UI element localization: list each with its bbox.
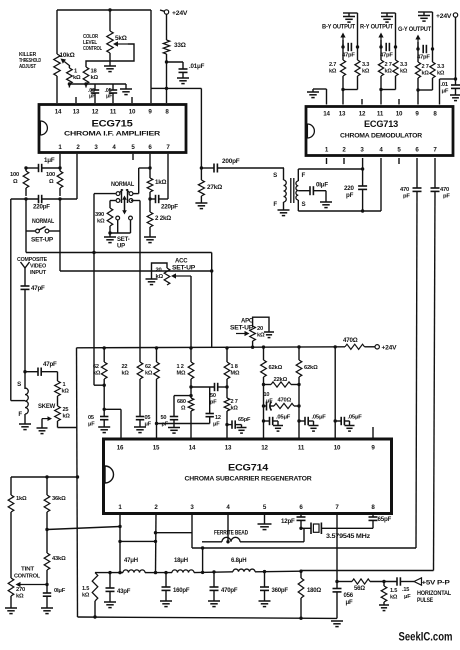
svg-text:COMPOSITE: COMPOSITE	[17, 257, 47, 263]
node pin8 rail crossing	[165, 87, 168, 90]
svg-text:10: 10	[264, 392, 270, 398]
capacitor .01uF top middle	[179, 69, 188, 72]
wire pin1 branch right	[120, 540, 156, 542]
node 211 at 271	[210, 269, 213, 272]
wire 62kC down to pin15	[156, 379, 158, 439]
resistor 180 ohm	[298, 571, 304, 618]
ground transformer cap	[320, 202, 332, 208]
node G-Y join	[416, 88, 419, 91]
inductor input coil	[25, 372, 28, 414]
svg-text:kΩ: kΩ	[231, 406, 239, 412]
resistor 62k A	[101, 348, 107, 379]
label SET-UP switch2	[117, 237, 130, 250]
wire 714 pin3 column	[191, 514, 193, 549]
resistor 62k E	[296, 347, 302, 377]
svg-text:pF: pF	[403, 194, 410, 200]
svg-text:S: S	[273, 172, 277, 179]
node 390k bottom	[108, 231, 111, 234]
label F secondary	[302, 172, 306, 179]
svg-text:HORIZONTAL: HORIZONTAL	[417, 591, 451, 597]
svg-text:B-Y OUTPUT: B-Y OUTPUT	[322, 25, 356, 31]
node 1.8M col top	[225, 346, 228, 349]
wiper arrow ACC	[171, 273, 191, 278]
resistor 1k pin6	[147, 178, 153, 192]
wire branch to .01uF	[167, 62, 184, 69]
switch normal/setup 1	[26, 227, 60, 233]
label R-Y OUTPUT	[360, 25, 394, 31]
svg-text:27kΩ: 27kΩ	[207, 184, 222, 191]
label 47pF G-Y	[417, 55, 430, 61]
wire switch2 lower left down	[110, 220, 131, 233]
resistor 3.3k R-Y	[393, 60, 398, 76]
label 65pF mid	[238, 417, 251, 423]
label HORIZONTAL PULSE	[417, 591, 451, 604]
svg-text:100: 100	[10, 172, 19, 178]
wiper arrow killer pot	[61, 59, 71, 67]
wiper arrow APC	[236, 331, 250, 336]
capacitor 470pF pin6	[413, 188, 422, 191]
svg-text:kΩ: kΩ	[16, 594, 24, 600]
svg-text:F: F	[18, 411, 22, 418]
wire main bus 348	[77, 346, 253, 349]
label 470 ohm bus	[343, 337, 358, 344]
capacitor .05uF r3	[335, 417, 349, 426]
label 47pF coupling	[43, 361, 57, 368]
wire 390k junction to ground	[109, 233, 111, 237]
svg-text:47pF: 47pF	[43, 361, 57, 368]
wire 10k pot top lead	[56, 10, 58, 54]
ground 1.5k pulse	[379, 602, 389, 611]
node bus 263	[262, 345, 265, 348]
svg-text:65pF: 65pF	[238, 417, 251, 423]
wire 680 to pin14	[190, 411, 192, 439]
op-amp IC U3 ECG714 CHROMA SUBCARRIER REGENERATOR	[104, 439, 392, 514]
node B-Y cap right	[356, 45, 359, 48]
svg-text:1 8: 1 8	[231, 364, 238, 370]
label 47uH	[124, 558, 138, 564]
svg-text:NORMAL: NORMAL	[32, 219, 54, 225]
wire 714 pin8 to 65pF	[372, 514, 374, 518]
wire 47uH to B	[145, 572, 156, 574]
svg-text:μF: μF	[346, 600, 353, 606]
label 360pF	[272, 588, 289, 594]
wire junction to 714 pin1	[47, 527, 120, 530]
svg-text:12: 12	[92, 109, 99, 116]
svg-text:43pF: 43pF	[117, 589, 131, 595]
svg-text:VIDEO: VIDEO	[30, 263, 47, 269]
svg-text:.05μF: .05μF	[312, 415, 327, 421]
wire pin6 down	[149, 154, 151, 178]
label 680	[177, 399, 186, 412]
pin stub 713-1	[326, 158, 328, 164]
tint wiper arrow	[16, 582, 47, 587]
svg-text:+24V: +24V	[172, 10, 188, 17]
svg-text:PULSE: PULSE	[417, 598, 433, 604]
node 1.5k bottom right	[382, 580, 385, 583]
node bus 299	[297, 345, 300, 348]
wire 25k bottom jog	[58, 421, 78, 428]
wire B-Y right rail top	[357, 13, 359, 60]
svg-text:CHROMA DEMODULATOR: CHROMA DEMODULATOR	[340, 133, 422, 140]
capacitor 65pF mid	[227, 420, 242, 428]
horizontal pulse input arrow	[414, 578, 422, 585]
svg-text:+24V: +24V	[382, 345, 398, 352]
wire rail 94 from switch	[93, 194, 95, 386]
node pin1 541	[118, 540, 121, 543]
svg-text:62kΩ: 62kΩ	[269, 365, 283, 371]
ground 714 pin5	[258, 524, 272, 530]
svg-text:1 2: 1 2	[177, 364, 184, 370]
resistor 62k C	[154, 348, 160, 379]
svg-text:180Ω: 180Ω	[307, 588, 321, 594]
svg-text:62: 62	[93, 364, 99, 370]
svg-text:CONTROL: CONTROL	[14, 573, 41, 579]
capacitor 160pF	[162, 573, 171, 601]
svg-text:12: 12	[261, 445, 268, 452]
svg-text:kΩ: kΩ	[145, 371, 153, 377]
wire ACC wiper down	[190, 276, 192, 348]
terminal +24V top middle	[164, 10, 168, 14]
label 220pF demod	[344, 185, 354, 199]
capacitor 47pF input	[21, 286, 30, 289]
capacitor 470pF pin7	[431, 188, 440, 191]
svg-text:2 2kΩ: 2 2kΩ	[155, 215, 171, 222]
svg-text:F: F	[302, 172, 306, 179]
svg-text:SET-UP: SET-UP	[172, 265, 195, 271]
svg-text:16: 16	[117, 445, 124, 452]
label ACC 20k	[156, 268, 164, 280]
wire APC top loop	[253, 317, 269, 332]
potentiometer APC 20k	[250, 326, 256, 341]
node 62kC col top	[155, 346, 158, 349]
svg-text:50: 50	[210, 393, 216, 399]
label 56 ohm	[354, 586, 365, 592]
resistor 33 ohm	[163, 40, 169, 54]
node pin6 branch	[148, 166, 151, 169]
node 50pF2 right	[225, 385, 228, 388]
label 2.7k R-Y	[385, 62, 393, 75]
ground on bus right end	[120, 84, 132, 95]
label 2.7k mid	[231, 399, 239, 412]
label .05uF r2	[312, 415, 327, 421]
wire 713 pin4 step	[380, 158, 382, 211]
wire bus under divider	[69, 84, 126, 88]
wire branch 423 to .12uF	[157, 423, 210, 425]
resistor 2.7k G-Y	[415, 62, 420, 78]
capacitor 43pF	[106, 573, 115, 602]
node 33ohm cap branch	[165, 60, 168, 63]
node B-Y cap left	[341, 45, 344, 48]
svg-text:3.579545 MHz: 3.579545 MHz	[326, 533, 370, 540]
svg-text:18: 18	[91, 69, 98, 75]
node 220p2 junction	[148, 197, 151, 200]
svg-text:Ω: Ω	[181, 406, 186, 412]
capacitor 220pF demod	[358, 169, 367, 211]
resistor 18k	[83, 67, 89, 84]
svg-text:pF: pF	[346, 192, 354, 199]
svg-text:47pF: 47pF	[380, 53, 393, 59]
svg-text:kΩ: kΩ	[97, 219, 105, 225]
wire long line 271	[60, 270, 212, 272]
capacitor .05uF pin12	[91, 84, 99, 103]
svg-text:100: 100	[46, 172, 55, 178]
svg-text:33Ω: 33Ω	[174, 42, 186, 49]
node ferrite pin4	[226, 540, 229, 543]
ground .05 r1	[273, 426, 283, 432]
svg-text:.01: .01	[441, 82, 449, 88]
label 50pF2	[210, 393, 217, 406]
label COMPOSITE VIDEO INPUT	[17, 257, 47, 276]
wire crystal right lead	[321, 527, 373, 529]
node B-Y join	[341, 88, 344, 91]
capacitor 50pF col174	[170, 417, 178, 428]
svg-text:220pF: 220pF	[161, 204, 178, 211]
label 180 ohm	[307, 588, 321, 594]
label 470pF chain	[221, 588, 238, 594]
ground input coil	[19, 424, 31, 430]
terminal +24V mid	[375, 345, 379, 349]
node pin3 713	[361, 167, 364, 170]
wire .01uF t ground	[313, 191, 326, 202]
wire video down	[24, 289, 26, 371]
wire .01uF to ground	[182, 72, 184, 78]
svg-text:36kΩ: 36kΩ	[52, 496, 66, 502]
wire rail 94 jog to 62kA	[94, 384, 104, 386]
svg-text:10kΩ: 10kΩ	[60, 52, 75, 59]
svg-text:47pF: 47pF	[417, 55, 430, 61]
wire switch2 row2 left to 390k	[110, 201, 116, 209]
resistor 100 ohm right	[57, 168, 63, 196]
pin stub 713-2	[343, 158, 345, 164]
ground .05 r2	[309, 426, 319, 432]
svg-text:43kΩ: 43kΩ	[52, 556, 66, 562]
svg-text:220: 220	[344, 185, 354, 192]
resistor 3.3k G-Y	[430, 62, 435, 78]
terminal +24V top right	[453, 13, 457, 17]
svg-text:2.7: 2.7	[329, 62, 336, 68]
svg-text:56Ω: 56Ω	[354, 586, 365, 592]
label 1.5k pulse	[390, 588, 398, 601]
ground col174	[168, 428, 180, 434]
resistor 2.2k	[147, 212, 153, 227]
wire pin8 top bus to right vertical rail	[167, 88, 202, 168]
wire 22k down	[139, 379, 141, 417]
svg-text:MΩ: MΩ	[177, 371, 186, 377]
wire rail 60 down to switch	[59, 199, 61, 231]
capacitor 47pF B-Y horizontal	[348, 43, 351, 51]
label APC 20k	[257, 326, 265, 339]
label F primary	[273, 201, 277, 208]
resistor 3.3k B-Y	[355, 60, 360, 76]
wire switch2 lower right down	[130, 220, 132, 233]
svg-text:390: 390	[95, 212, 104, 218]
svg-text:NORMAL: NORMAL	[111, 182, 134, 188]
svg-text:ECG714: ECG714	[228, 463, 268, 473]
potentiometer color level 5k	[107, 31, 113, 53]
capacitor .05uF col104	[100, 417, 108, 428]
resistor 22k horizontal	[264, 382, 300, 387]
resistor 390k	[107, 208, 113, 233]
inductor 6.8uH	[233, 569, 255, 572]
node pin1 526	[118, 525, 121, 528]
pin stub 713-5	[398, 158, 400, 164]
ground below 2.2k	[144, 237, 156, 243]
node 62kA col top	[103, 346, 106, 349]
label .05uF r1	[276, 415, 291, 421]
label 220pF pin7	[161, 204, 178, 211]
transformer core	[291, 178, 294, 203]
wire R-Y top loop	[381, 12, 396, 14]
resistor 100 ohm left	[23, 168, 29, 196]
wire crystal left lead	[301, 527, 311, 529]
ground below 5k pot	[104, 66, 116, 72]
ground skew	[37, 428, 48, 434]
svg-text:22kΩ: 22kΩ	[274, 377, 288, 383]
label 22k horizontal	[274, 377, 288, 383]
svg-text:kΩ: kΩ	[390, 595, 398, 601]
svg-text:470Ω: 470Ω	[343, 337, 358, 344]
resistor 43k	[44, 553, 50, 570]
ferrite bead	[222, 537, 240, 542]
svg-text:50: 50	[161, 415, 167, 421]
ground below 390k	[104, 237, 116, 243]
label 43k	[52, 556, 66, 562]
node 62kA 409	[103, 408, 106, 411]
ground below 27k	[195, 203, 207, 209]
node 62kA 385	[103, 384, 106, 387]
label .056uF	[344, 593, 354, 606]
label TINT CONTROL	[14, 567, 41, 580]
wire killer wiper to 1k resistor	[68, 66, 70, 68]
wire 2.2k to ground	[149, 227, 151, 237]
resistor 470 horizontal	[274, 403, 299, 408]
label 27k	[207, 184, 222, 191]
node .05 c3 left	[334, 419, 337, 422]
watermark SeekIC.com	[399, 630, 453, 644]
resistor 1.2M	[188, 348, 194, 379]
resistor 56 ohm	[352, 579, 370, 584]
svg-text:ACC: ACC	[175, 259, 188, 265]
resistor 470 ohm bus	[345, 344, 365, 349]
capacitor .15uF	[397, 577, 414, 585]
pin stub 715-13	[75, 97, 77, 103]
svg-text:2 7: 2 7	[231, 399, 238, 405]
svg-text:kΩ: kΩ	[73, 75, 81, 81]
svg-text:TINT: TINT	[21, 567, 35, 573]
svg-text:INPUT: INPUT	[30, 270, 47, 276]
node 1.5k bottom	[93, 615, 96, 618]
svg-text:kΩ: kΩ	[93, 371, 101, 377]
resistor 1.5k pulse	[381, 582, 387, 603]
label .01uF tint	[54, 588, 66, 594]
svg-text:+5V P-P: +5V P-P	[422, 580, 450, 587]
ground .056uF	[331, 621, 343, 627]
svg-text:12: 12	[359, 111, 366, 118]
svg-text:CONTROL: CONTROL	[83, 46, 102, 52]
label 3.3k G-Y	[437, 64, 445, 77]
potentiometer 270k tint	[8, 578, 14, 596]
capacitor 220pF pin7	[150, 154, 168, 203]
svg-text:μF: μF	[442, 89, 449, 95]
node chain 180	[299, 570, 302, 573]
ground APC	[264, 332, 274, 338]
ground tint cap	[41, 608, 53, 614]
potentiometer ACC 20k	[164, 268, 170, 285]
wiper arrow color level pot	[113, 41, 128, 46]
label B-Y OUTPUT	[322, 25, 356, 31]
node bus 335	[334, 345, 337, 348]
ground col140	[134, 427, 146, 433]
label 6.8uH	[231, 558, 246, 564]
wire 714 pin1 column	[119, 514, 121, 573]
svg-text:11: 11	[377, 111, 384, 118]
label S coil	[17, 381, 21, 388]
svg-text:270: 270	[16, 587, 25, 593]
node junction 94-252	[92, 251, 95, 254]
resistor 1.5k chain	[92, 573, 98, 617]
label 33 ohm	[174, 42, 186, 49]
capacitor .05uF r2	[299, 417, 314, 426]
svg-text:pF: pF	[443, 194, 450, 200]
label KILLER THRESHOLD ADJUST	[19, 52, 41, 70]
svg-text:SeekIC.com: SeekIC.com	[399, 630, 453, 644]
svg-text:SET-: SET-	[117, 237, 130, 243]
label 5kohm	[115, 35, 127, 42]
wire pin1 down	[59, 154, 61, 168]
capacitor 47pF R-Y horizontal	[381, 43, 389, 60]
node chain 43pF	[108, 571, 111, 574]
svg-text:kΩ: kΩ	[422, 71, 430, 77]
wire 5k pot top	[109, 10, 111, 31]
node G-Y cap right	[431, 47, 434, 50]
svg-text:470: 470	[440, 187, 449, 193]
wire pin6 mid	[149, 192, 151, 212]
wire 18uH right	[194, 571, 233, 574]
wire switch2 row2 right to rail140	[131, 201, 140, 363]
svg-text:12pF: 12pF	[281, 518, 295, 525]
node 220p demod bottom	[361, 209, 364, 212]
svg-text:18μH: 18μH	[174, 558, 188, 564]
wire G-Y bottom join	[418, 78, 433, 105]
wire pin3 branch left	[156, 532, 193, 534]
node .05 c1 left	[262, 419, 265, 422]
wire R-Y right rail top	[395, 13, 397, 60]
svg-text:μF: μF	[404, 594, 411, 600]
svg-text:14: 14	[189, 445, 196, 452]
node pin2 532	[154, 531, 157, 534]
node 22kH right	[297, 383, 300, 386]
label .05uF col140	[145, 415, 152, 428]
wire 56 to node	[370, 581, 397, 583]
wire G-Y top loop	[418, 11, 433, 13]
node G-Y cap left	[416, 47, 419, 50]
svg-text:Ω: Ω	[49, 179, 54, 185]
node chain 360pF	[263, 570, 266, 573]
label 65pF pin8	[378, 516, 392, 523]
wire right rail to pin 9	[151, 10, 167, 103]
label 470 horizontal	[278, 398, 292, 404]
inductor 18uH	[156, 570, 195, 573]
ground 360pF	[259, 601, 271, 607]
svg-text:14: 14	[323, 111, 330, 118]
wire col335 down	[334, 347, 336, 439]
wire 33ohm bottom to pin8	[166, 54, 168, 103]
capacitor 65pF pin8	[369, 517, 378, 528]
capacitor 47pF coupling	[25, 368, 58, 376]
wire killer pot bottom to ECG715 pin 14	[56, 76, 58, 103]
ground 43pF	[104, 602, 116, 608]
wire 220p right to pin2	[42, 154, 77, 199]
